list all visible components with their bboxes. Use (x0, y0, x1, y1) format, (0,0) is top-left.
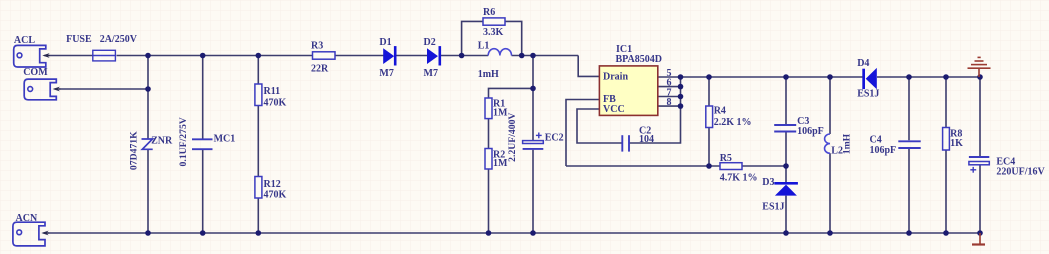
svg-text:2A/250V: 2A/250V (100, 34, 138, 45)
svg-text:1M: 1M (493, 158, 508, 169)
svg-text:VCC: VCC (603, 104, 625, 115)
svg-text:R3: R3 (311, 41, 323, 52)
svg-text:1mH: 1mH (842, 133, 853, 154)
svg-text:M7: M7 (379, 68, 393, 79)
svg-text:1K: 1K (950, 138, 963, 149)
svg-text:1mH: 1mH (478, 69, 499, 80)
svg-text:D1: D1 (379, 37, 391, 48)
svg-text:D2: D2 (424, 37, 436, 48)
svg-text:8: 8 (667, 97, 672, 108)
svg-text:EC2: EC2 (545, 133, 564, 144)
svg-text:220UF/16V: 220UF/16V (996, 167, 1045, 178)
svg-text:R6: R6 (483, 7, 495, 18)
svg-text:R11: R11 (264, 86, 281, 97)
svg-text:MC1: MC1 (214, 134, 236, 145)
svg-text:ZNR: ZNR (151, 136, 173, 147)
svg-text:ACN: ACN (16, 213, 38, 224)
svg-text:M7: M7 (424, 68, 438, 79)
svg-text:ES1J: ES1J (762, 202, 784, 213)
svg-text:COM: COM (23, 67, 48, 78)
svg-text:3.3K: 3.3K (483, 27, 504, 38)
svg-text:BPA8504D: BPA8504D (616, 54, 662, 65)
svg-text:4.7K 1%: 4.7K 1% (720, 173, 758, 184)
svg-text:FUSE: FUSE (66, 34, 92, 45)
svg-text:22R: 22R (311, 64, 329, 75)
svg-text:104: 104 (639, 134, 654, 145)
svg-text:Drain: Drain (603, 71, 628, 82)
svg-text:470K: 470K (264, 190, 287, 201)
svg-text:ES1J: ES1J (857, 89, 879, 100)
svg-text:D4: D4 (857, 58, 869, 69)
svg-text:106pF: 106pF (870, 145, 897, 156)
svg-text:0.1UF/275V: 0.1UF/275V (178, 117, 189, 166)
svg-text:07D471K: 07D471K (128, 131, 139, 170)
svg-text:ACL: ACL (14, 35, 35, 46)
svg-text:L1: L1 (478, 41, 490, 52)
svg-text:470K: 470K (264, 97, 287, 108)
svg-text:106pF: 106pF (797, 126, 824, 137)
svg-text:R4: R4 (714, 106, 726, 117)
svg-text:R12: R12 (264, 179, 281, 190)
svg-text:R5: R5 (720, 153, 732, 164)
svg-text:C4: C4 (870, 134, 882, 145)
svg-text:2.2K 1%: 2.2K 1% (714, 117, 752, 128)
svg-text:1M: 1M (493, 108, 508, 119)
svg-text:D3: D3 (762, 177, 774, 188)
svg-text:2.2UF/400V: 2.2UF/400V (507, 113, 518, 162)
